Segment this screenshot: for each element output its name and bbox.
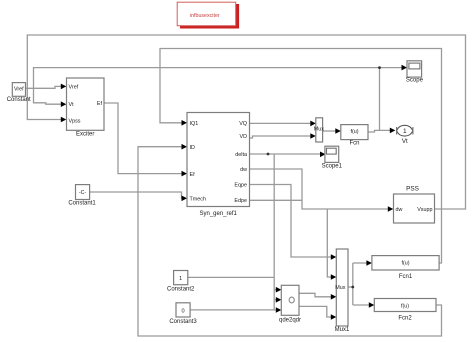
svg-text:dw: dw [240, 167, 247, 173]
arrowhead into Fcn1 [366, 260, 372, 266]
wire Fcn1 out to IQ1 feedback [160, 49, 442, 264]
wire Mux1 out to Fcn1 and Fcn2 [348, 263, 370, 305]
scope1 block [322, 146, 343, 169]
svg-text:Scope: Scope [406, 78, 424, 84]
PSS block [394, 186, 435, 224]
svg-text:Exciter: Exciter [76, 132, 94, 138]
svg-text:Tmech: Tmech [190, 197, 206, 203]
wire VQ to Mux [250, 122, 312, 124]
svg-text:f(u): f(u) [401, 261, 409, 267]
arrowhead into Scope1 [320, 152, 326, 158]
outport Vt [397, 125, 413, 145]
svg-text:f(u): f(u) [350, 129, 358, 135]
arrowhead into Ef [182, 171, 188, 177]
wire dw to PSS [250, 169, 389, 209]
wire Fcn out to Vt outport [368, 130, 392, 132]
svg-text:dw: dw [396, 207, 403, 213]
svg-text:Mux: Mux [335, 285, 345, 291]
arrowhead into Mux in1 [310, 121, 316, 127]
svg-text:Ef: Ef [190, 172, 196, 178]
arrowhead into Vt [61, 101, 67, 107]
wire Eqpe to Mux1 in1 [250, 185, 332, 258]
arrowhead qde2qdr in3 [276, 307, 282, 313]
junction dot on delta wire [267, 153, 270, 156]
svg-text:infbusexciter: infbusexciter [190, 13, 220, 19]
svg-text:Vt: Vt [402, 138, 408, 145]
syn_gen_ref1 block [187, 113, 250, 218]
arrowhead into ID [182, 144, 188, 150]
wire qde2qdr out1 to Mux1 in3 [299, 293, 332, 297]
junction dot at Mux1 out [351, 286, 354, 289]
svg-text:VQ: VQ [239, 121, 247, 127]
constant Vref [7, 83, 31, 103]
svg-text:Ef: Ef [97, 101, 103, 107]
wire Edpe [250, 199, 303, 201]
svg-text:delta: delta [235, 152, 247, 158]
constant1 block [68, 185, 96, 207]
arrowhead Mux1 in1 [331, 254, 337, 260]
svg-text:PSS: PSS [406, 186, 419, 193]
svg-text:Fcn: Fcn [349, 140, 359, 146]
svg-text:ID: ID [190, 145, 195, 151]
arrowhead into Vpss [61, 117, 67, 123]
wire delta to Scope1 [250, 153, 322, 155]
junction dot at Scope branch [378, 66, 381, 69]
arrowhead into Vref [61, 84, 67, 90]
wire Fcn2 out to ID feedback [138, 147, 442, 336]
exciter block [67, 78, 105, 138]
wire qde2qdr out2 to Mux1 in4 [299, 306, 332, 317]
svg-text:Edpe: Edpe [234, 198, 247, 204]
wire Vsupp feedback (PSS Vsupp to Exciter Vpss) [27, 35, 465, 209]
wire Mux out to Fcn [323, 130, 337, 132]
mux1 block [335, 249, 350, 333]
svg-text:Mux1: Mux1 [335, 327, 350, 333]
svg-text:IQ1: IQ1 [190, 121, 199, 127]
svg-text:Vref: Vref [14, 86, 24, 92]
arrowhead into IQ1 [182, 120, 188, 126]
arrowhead into PSS dw [388, 206, 394, 212]
svg-text:Constant: Constant [7, 97, 31, 103]
svg-text:1: 1 [403, 128, 407, 135]
arrowhead into Mux in2 [310, 133, 316, 139]
svg-text:Scope1: Scope1 [322, 164, 343, 170]
wire Vref constant to Exciter Vref [25, 86, 62, 88]
svg-text:1: 1 [179, 276, 182, 282]
wire branch dw line down to Mux1 in2 [327, 209, 332, 277]
scope block [406, 61, 424, 84]
svg-text:0: 0 [181, 308, 184, 314]
arrowhead into Fcn [335, 128, 341, 134]
arrowhead into Tmech [182, 196, 188, 202]
constant3 block [169, 303, 197, 325]
svg-text:VD: VD [240, 134, 248, 140]
arrowhead into Vt outport [390, 128, 396, 134]
svg-text:Vref: Vref [69, 84, 79, 90]
wire Ef from Exciter to Syn_gen [104, 103, 183, 174]
svg-text:Constant3: Constant3 [169, 319, 197, 325]
svg-text:Constant2: Constant2 [167, 287, 195, 293]
fcn1 block [372, 256, 439, 280]
svg-text:Fcn2: Fcn2 [398, 316, 412, 322]
svg-text:Fcn1: Fcn1 [399, 274, 413, 280]
arrowhead Mux1 in2 [331, 274, 337, 280]
wire delta branch down to qde2qdr [274, 154, 277, 310]
wire Constant1 to Tmech [90, 192, 183, 198]
annotation title infbusexciter [177, 2, 239, 28]
svg-text:Vpss: Vpss [69, 119, 81, 125]
qde2qdr block [279, 285, 301, 323]
svg-text:Vsupp: Vsupp [417, 207, 432, 213]
arrowhead qde2qdr in1 [276, 287, 282, 293]
arrowhead Mux1 in4 [331, 314, 337, 320]
svg-text:Eqpe: Eqpe [234, 183, 247, 189]
svg-text:Syn_gen_ref1: Syn_gen_ref1 [200, 211, 238, 217]
wire Constant3 to qde2qdr [190, 309, 274, 311]
svg-text:Mux: Mux [314, 127, 324, 133]
arrowhead qde2qdr in2 [276, 297, 282, 303]
svg-text:Vt: Vt [69, 102, 75, 108]
fcn block [341, 125, 368, 147]
mux block [314, 118, 324, 142]
svg-text:qde2qdr: qde2qdr [279, 318, 301, 324]
svg-text:Constant1: Constant1 [68, 200, 96, 206]
arrowhead Mux1 in3 [331, 294, 337, 300]
constant2 block [167, 271, 195, 293]
fcn2 block [374, 299, 436, 322]
wire junction to Scope [380, 67, 403, 69]
svg-text:f(u): f(u) [401, 304, 409, 310]
arrowhead into Scope [402, 65, 408, 71]
svg-text:-C-: -C- [79, 190, 86, 196]
wire Vt feedback (Fcn out junction to Exciter Vt) [34, 68, 380, 131]
wire VD to Mux [250, 136, 312, 138]
arrowhead into Fcn2 [369, 302, 375, 308]
wire Constant2 to qde2qdr [188, 276, 274, 278]
